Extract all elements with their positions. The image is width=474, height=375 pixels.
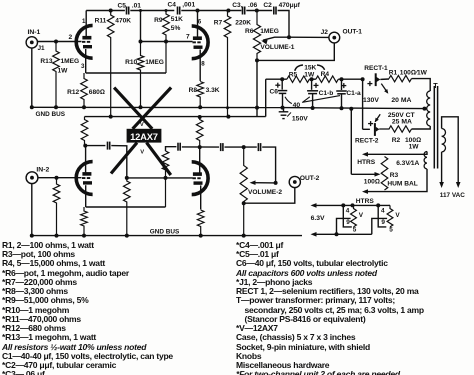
wire R1 to transformer secondary top (412, 79, 431, 91)
wire V2b plate riser (199, 147, 201, 172)
heater of V2 pins 4,9,5 (376, 203, 380, 207)
svg-text:.06: .06 (248, 2, 257, 9)
wire RECT-1 to R1 (380, 78, 389, 80)
resistor R12 680 ohms (81, 73, 88, 107)
input jack J1' (IN-2) (26, 172, 38, 184)
svg-text:C1-a: C1-a (346, 90, 361, 97)
ground bus channel 1 (32, 106, 283, 108)
svg-text:3.3K: 3.3K (206, 87, 220, 94)
wire 6.3V winding top to R3 and HTRS arrow (366, 152, 427, 155)
svg-text:25 MA: 25 MA (392, 118, 412, 125)
svg-text:R12: R12 (67, 89, 79, 96)
capacitor C1-b 40uf (311, 79, 313, 90)
output jack J2' (OUT-2) (289, 176, 300, 187)
triode V2a envelope (76, 162, 92, 195)
parts list left column (2, 241, 94, 250)
svg-text:R2: R2 (392, 137, 401, 144)
svg-text:1MEG: 1MEG (260, 28, 279, 35)
svg-text:1MEG: 1MEG (145, 59, 164, 66)
svg-text:1: 1 (82, 18, 86, 25)
capacitor C2 470uuf (273, 7, 275, 15)
svg-text:GND BUS: GND BUS (36, 111, 66, 118)
svg-text:R10: R10 (125, 59, 137, 66)
R3 wiper from ground (350, 109, 352, 175)
svg-text:R1: R1 (389, 69, 398, 76)
resistor R11 470K (107, 11, 114, 117)
channel-2 capacitor C4' (177, 143, 179, 151)
svg-text:RECT-2: RECT-2 (355, 138, 379, 145)
top wire segment plate V1a to C5 (86, 10, 125, 12)
capacitor C3 .06 (242, 7, 244, 15)
svg-text:V: V (140, 149, 144, 155)
wire IN-2 ground drop (31, 184, 33, 236)
wire J2 ground (257, 43, 334, 60)
channel-2 wire C3' to C2' (225, 146, 257, 148)
svg-text:4: 4 (381, 207, 385, 214)
channel-2 volume pot R6' VOLUME-2 (240, 147, 247, 236)
svg-text:9: 9 (381, 219, 385, 226)
svg-text:IN-1: IN-1 (28, 29, 41, 36)
capacitor C5 .01 (126, 7, 128, 15)
svg-text:1W: 1W (58, 68, 69, 75)
svg-text:C4: C4 (168, 2, 177, 9)
triode V1b envelope, pins 6,7,8 (192, 26, 208, 59)
svg-text:V: V (395, 212, 400, 219)
svg-text:HUM BAL: HUM BAL (387, 180, 417, 187)
svg-text:1MEG: 1MEG (61, 58, 80, 65)
transformer core (433, 86, 435, 169)
transformer 6.3V winding (424, 152, 427, 169)
resistor R4 15K (316, 76, 338, 82)
wire wiper to J2 (289, 36, 329, 38)
svg-text:150V: 150V (292, 115, 308, 122)
tube designator lines to V1a (114, 88, 152, 129)
top wire C2 to corner (278, 11, 289, 38)
resistor R7 220K (224, 11, 231, 117)
tube designator lines to V2a (111, 143, 137, 174)
svg-text:470K: 470K (115, 17, 131, 24)
svg-text:5: 5 (389, 226, 393, 233)
wire V2b cathode lead (200, 185, 202, 209)
selenium rectifier RECT-1 (375, 73, 377, 86)
resistor R9 51K 5% (163, 11, 170, 74)
svg-text:C3,: C3, (232, 2, 242, 9)
capacitor C1-a 40uf (341, 79, 343, 90)
top wire C5 to C4 (130, 10, 174, 12)
capacitor C4 .001 (177, 7, 179, 15)
svg-text:680Ω: 680Ω (89, 89, 105, 96)
wire primary to 117VAC (442, 117, 459, 183)
wire B+ node down to RECT-2 (362, 79, 364, 129)
svg-text:130V: 130V (363, 97, 379, 104)
svg-text:R4: R4 (321, 71, 330, 78)
svg-text:R13: R13 (40, 58, 52, 65)
svg-text:100Ω⁄1W: 100Ω⁄1W (400, 69, 428, 76)
svg-text:R9: R9 (154, 17, 163, 24)
channel-2 plate resistor from B+ to V2b (196, 117, 203, 147)
transformer primary winding (442, 129, 446, 152)
wire IN-2 to V2a grid (38, 177, 82, 179)
channel-2 wire C4' to C3' (182, 146, 219, 148)
channel-2 resistor R8' (197, 210, 204, 236)
svg-text:51K: 51K (171, 16, 183, 23)
tube designator lines to V2b (147, 143, 171, 175)
channel-2 wire segment R9' top to C4' (166, 147, 177, 151)
wire V2a cathode lead (85, 185, 87, 207)
svg-text:IN-2: IN-2 (36, 166, 49, 173)
svg-text:R11: R11 (95, 17, 107, 24)
channel-2 resistor R10' (124, 178, 131, 236)
capacitor C6 40uf electrolytic (281, 106, 285, 110)
svg-text:40: 40 (293, 102, 301, 109)
svg-text:15K: 15K (304, 64, 316, 71)
15K 1W brace label for R5 R4 (295, 65, 303, 71)
triode V1a envelope, pins 1,2,3 (76, 25, 92, 58)
wire J1 ground drop (31, 48, 33, 107)
svg-text:1W: 1W (304, 71, 315, 78)
wire R6 bottom to gnd bus (256, 60, 258, 116)
transformer T HV secondary winding (427, 91, 431, 126)
svg-text:117 VAC: 117 VAC (440, 192, 465, 199)
output jack J2 (OUT-1) (329, 32, 340, 43)
wire RECT-2 left (363, 128, 370, 130)
svg-text:2: 2 (69, 34, 73, 41)
power supply filter line 150V (266, 78, 287, 80)
ground bus channel 2 (32, 235, 302, 237)
svg-text:C5,: C5, (118, 3, 128, 10)
wire 6.3V winding bottom to R3 bottom and HTRS arrow (366, 169, 427, 192)
svg-text:OUT-2: OUT-2 (300, 175, 320, 182)
svg-text:20 MA: 20 MA (391, 97, 411, 104)
ground symbol power supply (283, 108, 285, 112)
heater of V1 pins 4,9,5 (341, 203, 345, 207)
wire OUT-2 ground (244, 188, 295, 204)
R6' wiper arrow (252, 182, 276, 184)
grid line V1b (141, 41, 193, 43)
channel-2 capacitor C3' (220, 143, 222, 151)
svg-text:5%: 5% (171, 25, 181, 32)
parts list right column (236, 241, 283, 250)
svg-text:3: 3 (81, 63, 85, 70)
channel-2 resistor R13' (53, 178, 60, 236)
wire drop to V1b grid line (140, 11, 142, 42)
svg-text:RECT-1: RECT-1 (364, 65, 388, 72)
svg-text:V: V (359, 212, 364, 219)
wire V1a cathode lead (85, 49, 87, 73)
svg-text:5: 5 (353, 226, 357, 233)
svg-text:,001: ,001 (182, 2, 195, 9)
svg-text:J2: J2 (321, 29, 329, 36)
wire V2a plate riser (85, 146, 87, 173)
channel-2 grid line V2b (127, 177, 193, 179)
selenium rectifier RECT-2 (374, 123, 376, 136)
svg-text:R7: R7 (214, 20, 223, 27)
top wire C4 to C3 (181, 10, 241, 12)
svg-text:HTRS: HTRS (356, 198, 375, 205)
svg-text:R6: R6 (245, 28, 254, 35)
svg-text:220K: 220K (235, 20, 251, 27)
svg-text:470μμf: 470μμf (279, 2, 301, 9)
wire J1 to V1a grid (38, 41, 82, 43)
resistor R13 1MEG 1W (53, 42, 60, 108)
svg-text:6.3V⁄1A: 6.3V⁄1A (396, 160, 419, 167)
wire V1b cathode lead (199, 50, 201, 82)
resistor R1 100 ohm 1W (389, 75, 412, 81)
wire B+ riser to power supply (265, 79, 267, 116)
channel-2 resistor R9' (162, 151, 169, 207)
svg-text:V: V (140, 122, 144, 128)
svg-text:R5: R5 (289, 71, 298, 78)
svg-text:VOLUME-1: VOLUME-1 (260, 44, 294, 51)
svg-text:9: 9 (346, 219, 350, 226)
tube designator lines to V1b (133, 88, 172, 129)
R6 wiper arrow to output (263, 37, 289, 40)
cathode line V1a (86, 72, 166, 74)
channel-2 resistor R11' from B+ (81, 117, 88, 147)
B+ line 150V to both channels (85, 116, 266, 118)
svg-text:R8: R8 (189, 87, 198, 94)
svg-text:VOLUME-2: VOLUME-2 (248, 189, 282, 196)
svg-text:4: 4 (346, 207, 350, 214)
svg-text:C1-b: C1-b (319, 90, 334, 97)
svg-text:12AX7: 12AX7 (130, 131, 158, 142)
resistor R10 1MEG (137, 42, 144, 108)
svg-text:GND BUS: GND BUS (150, 228, 180, 235)
input jack J1 (IN-1) (26, 37, 37, 48)
resistor R5 15K (287, 76, 310, 82)
svg-text:6: 6 (198, 19, 202, 26)
triode V2b envelope (192, 162, 208, 195)
svg-text:C2: C2 (263, 2, 272, 9)
svg-text:8: 8 (201, 60, 205, 67)
channel-2 resistor R12' (81, 207, 88, 236)
svg-text:R3: R3 (390, 172, 399, 179)
wire R2 to transformer secondary bottom (412, 126, 431, 129)
tube V 12AX7 label box (127, 129, 162, 143)
resistor R2 100 ohm 1W (379, 126, 411, 132)
svg-text:HTRS: HTRS (357, 159, 376, 166)
channel-2 wire C2' to corner drop (262, 147, 275, 183)
svg-text:.01: .01 (132, 3, 141, 10)
svg-text:1W: 1W (409, 143, 420, 150)
channel-2 cathode line (86, 206, 166, 208)
channel-2 capacitor C2' (257, 143, 259, 151)
heater bus 6.3V bottom with arrow (315, 233, 372, 235)
volume pot R6 1MEG (253, 11, 260, 61)
wire V1b plate riser (197, 11, 199, 37)
top wire C3 to C2 (246, 10, 272, 12)
svg-text:100Ω: 100Ω (364, 179, 380, 186)
channel-2 top wire with C5' (85, 145, 105, 147)
svg-text:6.3V: 6.3V (311, 215, 325, 222)
wire center tap to ground bus (423, 107, 427, 111)
wire V1a plate riser (85, 11, 87, 37)
heater bus 6.3V top with arrow (315, 204, 389, 206)
hum balance pot R3 100 ohm (381, 157, 388, 191)
svg-text:7: 7 (186, 34, 190, 41)
svg-text:C6: C6 (270, 89, 279, 96)
svg-text:J1: J1 (38, 45, 46, 52)
svg-text:OUT-1: OUT-1 (343, 28, 363, 35)
resistor R8 3.3K (197, 82, 204, 108)
